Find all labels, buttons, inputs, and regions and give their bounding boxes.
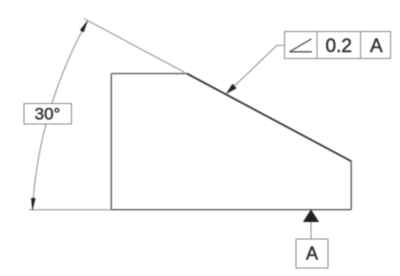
arrowhead bottom of arc: [31, 198, 35, 210]
datum leader stem: [310, 222, 312, 239]
datum label box: [296, 239, 328, 268]
30 degree label box: [24, 104, 72, 125]
extension line of bottom datum surface: [29, 209, 111, 211]
svg-text:0.2: 0.2: [325, 36, 351, 57]
feature control frame divider 2: [360, 32, 362, 59]
part outline left edge: [110, 74, 112, 210]
part outline top edge: [111, 73, 187, 75]
feature control frame outer box: [285, 32, 391, 59]
part outline right edge: [350, 160, 352, 209]
part slanted edge (toleranced surface): [187, 74, 351, 162]
leader arrowhead touching slanted surface: [227, 84, 237, 94]
svg-text:30°: 30°: [35, 105, 61, 124]
feature control frame divider 1: [316, 32, 318, 59]
arrowhead top of arc: [80, 21, 87, 32]
svg-text:A: A: [370, 36, 383, 57]
angularity symbol slant line: [290, 39, 312, 52]
angularity symbol base line: [290, 51, 313, 53]
datum feature triangle (filled): [303, 210, 318, 222]
extension line of slanted surface: [84, 19, 185, 73]
part outline bottom edge: [111, 209, 351, 211]
dimension arc (30 degree angular dimension): [33, 21, 88, 208]
leader line from feature control frame: [227, 45, 285, 93]
svg-text:A: A: [306, 244, 318, 264]
